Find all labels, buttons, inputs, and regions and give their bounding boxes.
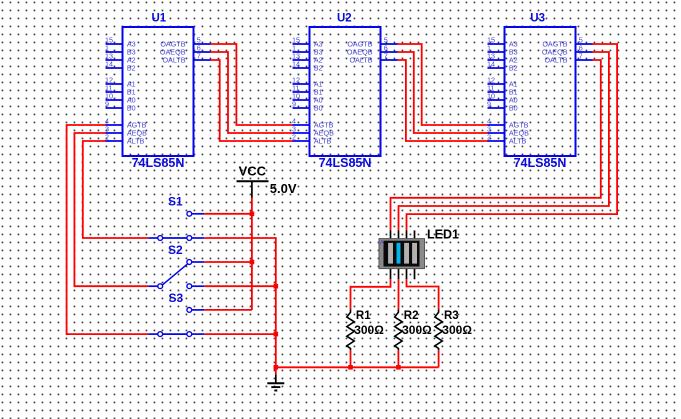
wire S3 lower throw to ground rail — [204, 333, 275, 335]
wire LED1 pin1 to resistor R1 — [351, 279, 391, 309]
svg-text:300Ω: 300Ω — [442, 323, 472, 337]
wire R3 bottom to ground rail — [438, 350, 440, 367]
svg-text:S3: S3 — [169, 291, 184, 305]
svg-text:9: 9 — [487, 99, 491, 108]
svg-text:OALTB: OALTB — [162, 56, 185, 65]
ground — [267, 374, 284, 390]
svg-text:B0: B0 — [314, 104, 323, 113]
wire U3 pin5 OAGTB to LED1 pin3 — [407, 44, 618, 230]
wire LED1 pin3 to resistor R3 — [407, 279, 439, 309]
resistor R1 300ohm — [347, 309, 384, 350]
wire U3 pin7 OALTB to LED1 pin1 — [391, 60, 601, 230]
svg-text:300Ω: 300Ω — [402, 323, 432, 337]
wire LED1 pin2 to resistor R2 — [398, 279, 400, 309]
wire S3 upper throw to VCC rail — [204, 309, 252, 311]
VCC power symbol with 5.0V — [237, 163, 297, 197]
svg-text:U2: U2 — [337, 13, 352, 25]
junction node J5 — [274, 365, 279, 370]
svg-text:A: A — [380, 240, 385, 247]
wire U2 pin6 OAEQB to U3 pin3 AEQB — [398, 52, 488, 133]
IC U2 74LS85N comparator — [292, 13, 398, 170]
wire U1 pin2 ALTB to switch S1 pole — [83, 141, 149, 238]
svg-text:R2: R2 — [404, 310, 419, 322]
svg-text:5.0V: 5.0V — [270, 181, 297, 196]
junction node J7 — [396, 365, 401, 370]
svg-text:74LS85N: 74LS85N — [514, 156, 567, 170]
wire S1 upper throw to VCC rail — [204, 213, 252, 215]
svg-text:VCC: VCC — [239, 163, 267, 178]
wire U1 pin4 AGTB to switch S3 pole — [67, 125, 149, 334]
svg-text:U1: U1 — [152, 13, 167, 25]
junction node J3 — [274, 284, 279, 289]
junction node J4 — [274, 332, 279, 337]
wire S2 lower throw to ground rail — [204, 285, 275, 287]
wire S2 upper throw to VCC rail — [204, 261, 252, 263]
wire U1 pin3 AEQB to switch S2 pole — [74, 133, 148, 286]
resistor R2 300ohm — [395, 309, 432, 350]
switch S3 SPDT — [148, 291, 204, 336]
junction node J2 — [250, 260, 255, 265]
wire ground vertical rail — [275, 286, 277, 374]
svg-text:14: 14 — [487, 59, 495, 68]
svg-text:OALTB: OALTB — [349, 56, 372, 65]
svg-text:ALTB: ALTB — [314, 137, 332, 146]
svg-text:9: 9 — [105, 99, 109, 108]
svg-text:B2: B2 — [314, 64, 323, 73]
svg-text:14: 14 — [105, 59, 113, 68]
svg-text:300Ω: 300Ω — [354, 323, 384, 337]
wire U1 pin7 OALTB to U2 pin2 ALTB — [211, 60, 293, 141]
wire S1 lower throw to ground rail — [204, 238, 275, 286]
resistor R3 300ohm — [435, 309, 472, 350]
junction node J1 — [250, 212, 255, 217]
wire U1 pin6 OAEQB to U2 pin3 AEQB — [211, 52, 293, 133]
wire U1 pin5 OAGTB to U2 pin4 AGTB — [211, 44, 293, 125]
wire U2 pin5 OAGTB to U3 pin4 AGTB — [398, 44, 488, 125]
svg-text:B2: B2 — [509, 64, 518, 73]
wire R2 bottom to ground rail — [397, 350, 399, 367]
switch S2 SPDT — [148, 243, 204, 289]
svg-text:R3: R3 — [444, 310, 459, 322]
svg-text:ALTB: ALTB — [127, 137, 145, 146]
wire R1 bottom to ground rail — [350, 350, 352, 367]
junction node J6 — [348, 365, 353, 370]
LED bar graph LED1 — [379, 227, 459, 279]
svg-text:7: 7 — [384, 51, 388, 60]
svg-text:U3: U3 — [530, 13, 545, 25]
wire ground rail to resistor bottoms — [276, 366, 439, 368]
svg-text:S1: S1 — [168, 195, 183, 209]
svg-text:B2: B2 — [127, 64, 136, 73]
svg-text:2: 2 — [105, 132, 109, 141]
svg-text:74LS85N: 74LS85N — [319, 156, 372, 170]
svg-text:R1: R1 — [356, 310, 371, 322]
wire U3 pin6 OAEQB to LED1 pin2 — [399, 52, 609, 230]
IC U3 74LS85N comparator — [487, 13, 593, 170]
IC U1 74LS85N comparator — [105, 13, 211, 170]
svg-text:LED1: LED1 — [427, 227, 459, 241]
wire U2 pin7 OALTB to U3 pin2 ALTB — [398, 60, 488, 141]
svg-text:S2: S2 — [168, 243, 183, 257]
svg-text:7: 7 — [579, 51, 583, 60]
svg-text:7: 7 — [197, 51, 201, 60]
switch S1 SPDT — [148, 195, 204, 241]
svg-text:14: 14 — [292, 59, 300, 68]
svg-text:74LS85N: 74LS85N — [132, 156, 185, 170]
svg-text:2: 2 — [487, 132, 491, 141]
svg-text:9: 9 — [292, 99, 296, 108]
svg-text:ALTB: ALTB — [509, 137, 527, 146]
svg-text:OALTB: OALTB — [544, 56, 567, 65]
svg-text:B0: B0 — [509, 104, 518, 113]
svg-text:2: 2 — [292, 132, 296, 141]
svg-text:B0: B0 — [127, 104, 136, 113]
wire VCC rail to switch throws — [251, 198, 253, 310]
